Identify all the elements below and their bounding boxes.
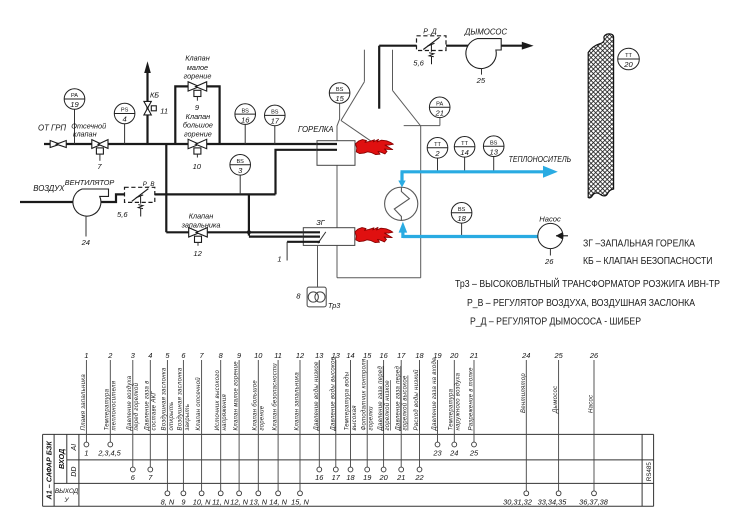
small-fire valve (9) (188, 82, 207, 97)
svg-text:теплоносителя: теплоносителя (112, 380, 118, 430)
svg-text:24: 24 (521, 351, 530, 360)
wire BS15 sensing line (337, 103, 340, 141)
svg-text:21: 21 (469, 351, 478, 360)
boiler outline (thin) (337, 50, 440, 278)
wire 1 Пламя запальника (81, 351, 89, 458)
wire 3 Давление воздуха (127, 351, 140, 482)
flame rod line 1 (287, 241, 320, 243)
svg-text:Давление газа в: Давление газа в (145, 380, 151, 431)
svg-text:Вентилятор: Вентилятор (521, 373, 527, 413)
svg-text:ВХОД: ВХОД (57, 449, 66, 469)
svg-text:перед горелкой: перед горелкой (133, 382, 140, 430)
svg-text:Клапан безопасности: Клапан безопасности (273, 363, 279, 431)
wire 10 Клапан большое (249, 351, 267, 507)
svg-text:26: 26 (589, 351, 599, 360)
air branch down to pilot (248, 194, 250, 235)
svg-text:составе АКГ: составе АКГ (152, 391, 158, 431)
svg-text:20: 20 (378, 473, 388, 482)
svg-text:горелкой низкое: горелкой низкое (384, 380, 391, 431)
svg-text:36,37,38: 36,37,38 (579, 498, 609, 507)
svg-text:13: 13 (489, 147, 498, 156)
flue damper regulator Р_Д (dashed box) (417, 36, 447, 51)
junction dot (247, 230, 251, 234)
gauge PS 4 (114, 103, 135, 124)
svg-text:15, N: 15, N (291, 498, 309, 507)
sensor BS 17 (265, 105, 286, 126)
svg-text:закрыть: закрыть (185, 404, 191, 432)
svg-text:24: 24 (449, 449, 458, 458)
circulation pump Насос (538, 223, 563, 248)
svg-text:24: 24 (81, 238, 90, 247)
svg-text:горение: горение (260, 405, 266, 430)
pilot gas branch down (165, 144, 167, 232)
svg-text:25: 25 (553, 351, 563, 360)
svg-text:Давление воды низкое: Давление воды низкое (314, 361, 320, 432)
svg-text:Давление воздуха: Давление воздуха (127, 375, 133, 431)
controller terminal table (43, 434, 654, 506)
svg-text:25: 25 (469, 449, 479, 458)
flue arrow (522, 42, 534, 50)
wire 2 Температура (97, 351, 121, 458)
svg-text:А1 – САФАР БЗК: А1 – САФАР БЗК (45, 441, 54, 501)
svg-text:19: 19 (363, 473, 371, 482)
sensor BS 15 (329, 83, 350, 104)
svg-text:Клапан запальника: Клапан запальника (295, 372, 301, 431)
svg-text:2,3,4,5: 2,3,4,5 (97, 449, 121, 458)
svg-text:Давление газа на входе: Давление газа на входе (432, 357, 438, 432)
svg-text:BS: BS (236, 159, 244, 165)
sensor BS 18 (451, 203, 472, 224)
svg-text:Расход воды низкий: Расход воды низкий (413, 369, 420, 431)
svg-text:10, N: 10, N (193, 498, 211, 507)
svg-text:ДЫМОСОС: ДЫМОСОС (464, 27, 508, 36)
pilot burner box ЗГ (303, 228, 355, 246)
svg-text:Воздушная заслонка: Воздушная заслонка (162, 367, 168, 430)
svg-text:1: 1 (84, 449, 88, 458)
svg-text:КБ: КБ (150, 91, 159, 100)
svg-text:TT: TT (461, 141, 468, 147)
air riser to burner (276, 150, 338, 195)
air inlet line (20, 201, 73, 203)
svg-text:ОТ ГРП: ОТ ГРП (38, 123, 66, 132)
svg-text:Температура воды: Температура воды (345, 371, 351, 430)
svg-text:10: 10 (193, 162, 202, 171)
svg-text:2: 2 (434, 149, 440, 158)
svg-text:DD: DD (71, 467, 78, 477)
sensor TT 20 (618, 48, 640, 70)
burner flame (356, 139, 394, 154)
svg-text:13, N: 13, N (249, 498, 267, 507)
air line from damper (155, 193, 276, 195)
svg-text:BS: BS (490, 140, 498, 146)
svg-text:1: 1 (277, 255, 281, 264)
svg-text:18: 18 (457, 214, 466, 223)
sensor TT 14 (454, 137, 475, 158)
svg-text:Давление газа перед: Давление газа перед (378, 366, 384, 432)
svg-text:12, N: 12, N (230, 498, 248, 507)
svg-text:Р_В: Р_В (143, 181, 155, 188)
svg-text:17: 17 (271, 117, 280, 126)
svg-text:Температура: Температура (105, 388, 111, 430)
svg-text:14: 14 (460, 148, 468, 157)
svg-text:21: 21 (434, 109, 443, 118)
svg-text:Клапан отсечной: Клапан отсечной (195, 377, 202, 431)
svg-text:клапан: клапан (73, 129, 97, 138)
svg-text:Пламя запальника: Пламя запальника (81, 374, 87, 431)
pilot gas line to ЗГ (166, 231, 320, 233)
svg-text:Давление газа перед: Давление газа перед (395, 366, 401, 432)
wire 15 Фотодатчик контроля (361, 351, 374, 482)
svg-text:ВЫХОД: ВЫХОД (55, 488, 79, 495)
svg-text:BS: BS (271, 110, 279, 116)
svg-text:Клапан: Клапан (189, 211, 213, 220)
wire 26 Насос (579, 351, 609, 507)
pilot valve Клапан запальника (12) (189, 228, 208, 243)
svg-text:ТЕПЛОНОСИТЕЛЬ: ТЕПЛОНОСИТЕЛЬ (509, 155, 571, 164)
air fan ВЕНТИЛЯТОР (73, 189, 109, 216)
svg-text:21: 21 (396, 473, 405, 482)
wire 19 Давление газа на входе (432, 351, 442, 458)
svg-text:BS: BS (336, 87, 344, 93)
svg-text:ВЕНТИЛЯТОР: ВЕНТИЛЯТОР (65, 178, 115, 187)
big-fire valve (10) (188, 139, 207, 154)
wire 13 Давление воды низкое (314, 351, 324, 482)
svg-text:4: 4 (122, 115, 126, 124)
svg-text:30,31,32: 30,31,32 (503, 498, 532, 507)
svg-text:5,6: 5,6 (117, 210, 128, 219)
wire 25 Дымосос (538, 351, 568, 507)
wire 4 Давление газа в (145, 351, 158, 482)
svg-text:16: 16 (315, 473, 324, 482)
wire 6 Воздушная заслонка (178, 351, 191, 507)
svg-text:PA: PA (71, 93, 78, 99)
svg-text:Разрежение в топке: Разрежение в топке (469, 367, 475, 431)
svg-text:12: 12 (296, 351, 304, 360)
svg-text:PA: PA (436, 102, 443, 108)
svg-text:Воздушная заслонка: Воздушная заслонка (178, 367, 184, 430)
svg-text:13: 13 (315, 351, 324, 360)
svg-text:горелки: горелки (369, 406, 375, 431)
svg-text:20: 20 (623, 60, 633, 69)
gas main line from ГРП to burner (44, 143, 337, 145)
svg-text:TT: TT (625, 53, 632, 59)
svg-text:ЗГ: ЗГ (316, 218, 325, 227)
sensor BS 16 (235, 104, 256, 125)
svg-text:Клапан малое горение: Клапан малое горение (234, 361, 240, 431)
svg-text:Источник высокого: Источник высокого (215, 370, 221, 431)
svg-text:1: 1 (84, 351, 88, 360)
smoke exhauster ДЫМОСОС (466, 39, 501, 69)
svg-text:11, N: 11, N (212, 498, 230, 507)
svg-text:22: 22 (414, 473, 423, 482)
svg-text:14: 14 (346, 351, 354, 360)
svg-text:AI: AI (71, 444, 78, 452)
vent riser with safety valve КБ (146, 72, 148, 145)
svg-text:ЗГ –ЗАПАЛЬНАЯ ГОРЕЛКА: ЗГ –ЗАПАЛЬНАЯ ГОРЕЛКА (583, 239, 695, 250)
svg-text:Р_Д: Р_Д (423, 29, 437, 36)
gas bypass loop (small fire) (175, 86, 219, 144)
svg-text:17: 17 (397, 351, 406, 360)
svg-text:Температура: Температура (449, 388, 455, 430)
svg-text:BS: BS (458, 207, 466, 213)
svg-text:25: 25 (476, 76, 486, 85)
air damper regulator Р_В (dashed box) (125, 187, 155, 202)
svg-text:ВОЗДУХ: ВОЗДУХ (33, 184, 65, 193)
instrument connector lines (74, 109, 76, 144)
svg-text:Фотодатчик контроля: Фотодатчик контроля (361, 358, 367, 430)
svg-text:Р_В – РЕГУЛЯТОР ВОЗДУХА, ВОЗДУ: Р_В – РЕГУЛЯТОР ВОЗДУХА, ВОЗДУШНАЯ ЗАСЛО… (467, 298, 695, 309)
svg-text:RS485: RS485 (646, 462, 653, 481)
svg-text:20: 20 (449, 351, 459, 360)
svg-text:TT: TT (434, 142, 441, 148)
svg-text:23: 23 (432, 449, 442, 458)
svg-text:высокая: высокая (352, 405, 358, 431)
sensor BS 13 (483, 136, 504, 157)
wire 11 Клапан безопасности (269, 351, 287, 507)
svg-text:BS: BS (241, 108, 249, 114)
svg-text:Тр3: Тр3 (328, 301, 340, 310)
manual inlet valve (50, 141, 66, 148)
svg-text:15: 15 (363, 351, 372, 360)
heat exchanger (385, 187, 418, 220)
gauge PA 19 (64, 89, 85, 110)
svg-text:PS: PS (121, 108, 129, 114)
heat supply line (blue) (401, 172, 544, 238)
svg-text:15: 15 (335, 94, 344, 103)
wire 16 Давление газа перед (378, 351, 391, 482)
svg-text:открыть: открыть (169, 401, 175, 430)
svg-text:9: 9 (237, 351, 241, 360)
svg-text:напряжения: напряжения (222, 394, 228, 431)
svg-text:33,34,35: 33,34,35 (538, 498, 568, 507)
svg-text:16: 16 (241, 115, 250, 124)
svg-text:2: 2 (107, 351, 112, 360)
svg-text:12: 12 (193, 249, 202, 258)
svg-text:5,6: 5,6 (413, 59, 424, 68)
wire 18 Расход воды низкий (413, 351, 424, 482)
sensor BS 3 (230, 155, 251, 176)
svg-text:горение: горение (184, 71, 212, 80)
burner box ГОРЕЛКА (317, 141, 355, 166)
wire 7 Клапан отсечной (193, 351, 211, 507)
svg-text:Дымосос: Дымосос (553, 386, 559, 414)
svg-text:Давление воды высокое: Давление воды высокое (330, 356, 336, 431)
svg-text:горелкой высокое: горелкой высокое (402, 375, 409, 431)
wire 9 Клапан малое горение (230, 351, 248, 507)
svg-text:19: 19 (70, 100, 79, 109)
svg-text:18: 18 (415, 351, 424, 360)
svg-text:26: 26 (544, 257, 554, 266)
wire 17 Давление газа перед (395, 351, 408, 482)
sensor TT 2 (427, 138, 448, 159)
safety valve КБ (11) vertical (144, 101, 151, 108)
svg-text:Клапан: Клапан (185, 54, 209, 63)
svg-text:горение: горение (184, 130, 212, 139)
svg-text:10: 10 (254, 351, 263, 360)
furnace wall (hatched) (588, 34, 613, 198)
svg-text:8, N: 8, N (161, 498, 175, 507)
shutoff valve Отсечной клапан (7) (92, 140, 108, 154)
wire 12 Клапан запальника (291, 351, 309, 507)
pilot flame (355, 227, 393, 242)
gauge PA 21 (429, 97, 450, 118)
ignition transformer Тр3 (317, 245, 319, 287)
wire 21 Разрежение в топке (469, 351, 479, 458)
svg-text:11: 11 (160, 107, 168, 116)
flue thick line (378, 46, 380, 109)
svg-text:Клапан большое: Клапан большое (253, 380, 259, 431)
svg-text:17: 17 (332, 473, 341, 482)
svg-text:Насос: Насос (539, 214, 561, 223)
svg-text:18: 18 (346, 473, 355, 482)
fan outlet jog to damper (99, 194, 125, 202)
svg-text:11: 11 (274, 351, 282, 360)
svg-text:Тр3 – ВЫСОКОВЛЬТНЫЙ ТРАНСФОРМА: Тр3 – ВЫСОКОВЛЬТНЫЙ ТРАНСФОРМАТОР РОЗЖИГ… (455, 278, 720, 290)
svg-text:ГОРЕЛКА: ГОРЕЛКА (298, 125, 334, 134)
svg-text:большое: большое (183, 121, 213, 130)
wire 24 Вентилятор (503, 351, 532, 507)
svg-text:14, N: 14, N (269, 498, 287, 507)
igniter electrode slash (318, 232, 326, 243)
heat return line (blue) (403, 235, 538, 238)
wire 14 Температура воды (345, 351, 358, 482)
svg-text:Клапан: Клапан (186, 112, 210, 121)
wire 20 Температура (449, 351, 462, 458)
wire 5 Воздушная заслонка (161, 351, 175, 507)
svg-text:запальника: запальника (181, 221, 221, 230)
svg-text:Р_Д – РЕГУЛЯТОР ДЫМОСОСА - ШИБ: Р_Д – РЕГУЛЯТОР ДЫМОСОСА - ШИБЕР (470, 317, 641, 328)
svg-text:9: 9 (181, 498, 185, 507)
svg-text:КБ – КЛАПАН БЕЗОПАСНОСТИ: КБ – КЛАПАН БЕЗОПАСНОСТИ (583, 256, 713, 267)
svg-text:Насос: Насос (589, 395, 595, 413)
wire 13 Давление воды высокое (330, 351, 340, 482)
svg-text:16: 16 (379, 351, 388, 360)
svg-text:наружного воздуха: наружного воздуха (456, 372, 462, 430)
wire 8 Источник высокого (212, 351, 230, 507)
svg-text:4: 4 (148, 351, 152, 360)
